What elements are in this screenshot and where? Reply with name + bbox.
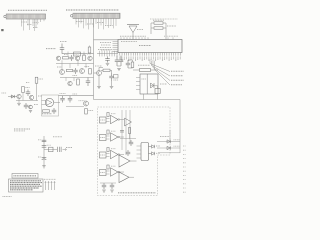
IC U2 body	[140, 74, 158, 94]
table header text	[14, 175, 37, 177]
signal label 4	[171, 84, 182, 86]
resistor R5 (box style)	[140, 69, 151, 72]
labels above bundle	[98, 49, 112, 51]
legend stroke 2	[48, 181, 50, 190]
gate G1 label	[111, 113, 116, 115]
IC U2 left pin b	[136, 81, 140, 83]
resistor R13	[22, 87, 25, 93]
input connector K4	[100, 170, 107, 176]
IC U1 left pin 4	[113, 47, 119, 49]
bundle tap wire 5	[109, 51, 111, 57]
margin tick 6	[183, 166, 186, 168]
IC U1 bottom pin 10	[139, 53, 141, 56]
connector J1 pin wire 7	[35, 19, 37, 28]
connector J1 bar	[6, 14, 45, 19]
connector J1 pin wire 5	[32, 19, 34, 26]
section label text line2	[14, 130, 25, 132]
resistor R20 at gate input	[107, 113, 109, 117]
label above R1	[153, 19, 164, 21]
table row 5	[10, 187, 39, 189]
bundle tap wire 7	[114, 51, 116, 57]
bundle tap wire 8	[116, 51, 118, 57]
ground under C2/C3	[117, 69, 121, 71]
capacitor C15	[42, 145, 47, 147]
IC U1 bottom pin 5	[128, 53, 130, 56]
margin tick 11	[183, 187, 186, 189]
IC U1 bottom pin 13	[146, 53, 148, 56]
vertical bus wire left of right section	[93, 18, 95, 99]
label at arrow	[66, 147, 72, 149]
table header box	[12, 174, 38, 179]
connector J1 pin wire 8	[37, 19, 39, 25]
capacitor C14	[42, 139, 47, 141]
wire row3	[60, 77, 94, 79]
resistor R14 under opamp	[43, 110, 50, 112]
capacitor C19 bottom of box	[103, 183, 105, 185]
fan stub 4	[154, 61, 156, 70]
bundle tap wire 3	[104, 51, 106, 57]
labels above U1 right stubs	[164, 35, 178, 37]
connector J2 pin wire 13	[105, 18, 107, 24]
IC U1 left pin 5	[113, 49, 119, 51]
gate G4 output wire	[120, 171, 124, 173]
power wire vertical	[43, 136, 45, 166]
label above resistor R5	[138, 64, 150, 66]
wires K4 to gate	[106, 170, 110, 172]
label right of R13	[26, 87, 30, 89]
connector J2 pin wire 12	[103, 18, 105, 29]
IC U1 top pin 7	[138, 37, 140, 39]
comparator A2 output	[130, 160, 137, 162]
capacitor C22 left of U3	[127, 150, 129, 152]
transistor Q6	[80, 69, 85, 74]
label above R7	[64, 54, 68, 56]
gate G3 label	[111, 148, 116, 150]
IC U1 bottom pin 15	[150, 53, 152, 56]
comparator A2	[119, 155, 130, 167]
IC U2 left pin d	[136, 89, 140, 91]
IC U1 part number text	[139, 45, 151, 47]
IC U3 body	[141, 143, 149, 161]
resistor R9	[67, 69, 73, 71]
connector J1 pin wire 3	[27, 19, 29, 26]
IC U1 bottom pin 25	[173, 53, 175, 56]
connector J1 pin wire 4	[29, 19, 31, 30]
label right of C15	[47, 144, 51, 146]
margin tick 7	[183, 170, 186, 172]
label r10	[85, 66, 90, 68]
wire R3 right	[110, 69, 112, 71]
legend stroke 3	[51, 181, 53, 190]
capacitor C6	[61, 44, 63, 48]
gate G3	[111, 150, 119, 158]
IC U1 bottom pin 22	[166, 53, 168, 56]
IC U1 top pin 1	[120, 37, 122, 39]
wire right of R1/R2 down to IC	[163, 22, 166, 24]
input connector K2	[100, 135, 107, 141]
margin tick 10	[183, 183, 186, 185]
resistor R2 top right	[154, 27, 163, 29]
IC U1 bottom pin 20	[161, 53, 163, 56]
IC U1 bottom pin 8	[134, 53, 136, 56]
wire R12 down	[36, 83, 38, 100]
input wire horizontal	[8, 96, 17, 98]
pin labels under J1	[21, 21, 27, 23]
LED D4 arrow	[149, 145, 155, 148]
ground under Q8	[18, 99, 20, 103]
connector J2 pin wire 17	[115, 18, 117, 26]
drop wire f	[73, 78, 75, 82]
input text label	[46, 48, 56, 50]
drop wire d	[85, 64, 87, 69]
dashed enclosure box	[98, 107, 171, 196]
wire C5/R4 bottom	[128, 67, 133, 69]
wire lower horizontal	[16, 100, 38, 102]
bundle tap wire 6	[111, 51, 113, 57]
ground under power cluster	[42, 166, 46, 168]
IC U2 inner text	[142, 78, 147, 80]
comparator A3	[119, 172, 129, 183]
IC U1 bottom pin 2	[121, 53, 123, 56]
fan stub 3	[152, 60, 154, 68]
IC U1 bottom pin 9	[137, 53, 139, 56]
wire opamp output	[54, 102, 60, 104]
capacitor C2	[116, 56, 118, 60]
resistor R7	[63, 57, 69, 59]
label right of U2	[160, 83, 167, 85]
wire base Q1	[94, 72, 97, 74]
footnote text	[3, 196, 12, 198]
drop wire e	[65, 78, 67, 82]
transistor Q10	[84, 101, 89, 106]
IC U1 left pin 1	[113, 41, 119, 43]
IC U1 bottom pin 16	[152, 53, 154, 56]
pin labels under J2	[76, 21, 84, 23]
IC U1 left pin 3	[113, 45, 119, 47]
IC U1 bottom pin 14	[148, 53, 150, 56]
signal wire 4 diagonal	[155, 70, 171, 86]
IC U1 bottom pin 26	[175, 53, 177, 56]
IC U1 bottom pin 3	[123, 53, 125, 56]
wire below Y1	[157, 94, 159, 100]
gate G3 bubble	[118, 154, 120, 156]
wires K2 to gate	[106, 135, 110, 137]
bundle tap wire 4	[106, 51, 108, 57]
resistor R21 at gate input	[107, 130, 109, 134]
IC U1 bottom pin 11	[141, 53, 143, 56]
transistor Q9	[29, 95, 33, 99]
IC U1 bottom pin 17	[155, 53, 157, 56]
connector J1 left mounting eye	[4, 15, 6, 17]
wire antenna to IC top	[132, 33, 134, 40]
small mark	[26, 82, 30, 84]
bundle tap wire 1	[99, 51, 101, 57]
IC U2 bottom pin	[143, 94, 145, 100]
faint note top right	[150, 18, 178, 20]
label right of R2	[167, 25, 176, 27]
label above cluster	[53, 136, 62, 138]
capacitor C4	[111, 73, 113, 76]
connector J1 pin wire 9	[40, 19, 42, 22]
wire bottom row	[59, 95, 94, 97]
comparator A3 output	[129, 176, 134, 178]
wire mid	[66, 106, 84, 108]
connector J1 pin wire 10	[43, 19, 45, 21]
label left of C17	[38, 156, 42, 158]
resistor R22 at gate input	[107, 148, 109, 152]
signal wire 1 diagonal	[150, 64, 170, 72]
IC U1 top pin 8	[141, 37, 143, 39]
connector K2 label	[100, 137, 105, 139]
ground under C20	[110, 190, 114, 192]
gate G4 bubble	[118, 171, 120, 173]
connector J2 pin wire 14	[108, 18, 110, 28]
input label	[2, 92, 7, 94]
margin tick 2	[183, 149, 186, 151]
IC U1 top pin 3	[126, 37, 128, 39]
margin tick 8	[183, 174, 186, 176]
wires K3 to gate	[106, 153, 110, 155]
IC U3 left pin 2	[137, 149, 142, 151]
IC U1 top pin 5	[132, 37, 134, 39]
capacitor C18 on wire A	[120, 130, 124, 132]
margin tick 1	[183, 145, 186, 147]
bundle tap wire 2	[101, 51, 103, 57]
horizontal wire below rows	[158, 152, 180, 154]
IC U1 top pin 6	[135, 37, 137, 39]
connector J1 pin wire 6	[34, 19, 36, 31]
label c8	[73, 75, 78, 77]
connector J2 pin wire 4	[83, 18, 85, 28]
capacitor C5	[127, 60, 129, 63]
resistor R23 at gate input	[107, 165, 109, 169]
gate G1 bubble	[118, 119, 120, 121]
signal label 1	[171, 70, 184, 72]
label near Q9	[38, 95, 42, 97]
margin tick 5	[183, 162, 186, 164]
IC U1 body	[118, 40, 182, 53]
label under R14	[42, 113, 52, 115]
capacitor C10	[27, 90, 29, 92]
IC U2 left pin a	[136, 77, 140, 79]
labels row under U1 pins (vertical micro text)	[119, 57, 121, 60]
label above Q3	[75, 53, 79, 55]
wire under R16	[129, 134, 131, 139]
diode D6 on row 1	[167, 140, 170, 143]
wire left of R5	[133, 69, 140, 71]
signal wire 3 diagonal	[153, 68, 170, 81]
connector J2 left mounting eye	[71, 15, 73, 17]
transistor Q7	[68, 81, 72, 85]
connector J2 bar	[73, 13, 120, 18]
table row 1	[10, 180, 41, 182]
IC U1 top pin 2	[123, 37, 125, 39]
IC U1 left pin 6	[113, 51, 119, 53]
wire bundle horizontal left of U1	[97, 53, 118, 55]
label row2	[174, 145, 180, 147]
ground under C1	[106, 63, 110, 65]
IC U1 bottom pin 18	[157, 53, 159, 56]
label top right in box	[160, 136, 169, 138]
connector J1 pin wire 2	[23, 19, 25, 31]
wire C2/C3 join	[117, 65, 121, 67]
signal wire 2 diagonal	[152, 66, 171, 77]
capacitor C13	[69, 96, 71, 99]
long bus wire to relay section	[94, 99, 181, 101]
connector J2 pin wire 5	[85, 18, 87, 25]
junction tick 2	[83, 52, 85, 57]
diode D2 on input	[11, 95, 14, 98]
resistor R16 above U3	[128, 128, 130, 134]
transistor Q2	[56, 56, 60, 60]
diode D1 inside U2	[151, 83, 155, 88]
margin tick 12	[183, 191, 186, 193]
IC U1 bottom pin 23	[168, 53, 170, 56]
crystal Y1	[155, 89, 160, 94]
gate G2	[111, 133, 119, 141]
connector J2 pin wire 11	[100, 18, 102, 25]
resistor R12	[35, 77, 38, 83]
connector J2 pin wire 7	[90, 18, 92, 24]
table row 3	[10, 183, 40, 185]
connector J2 pin wire 9	[95, 18, 97, 24]
IC U1 top pin 9	[144, 37, 146, 39]
resistor R3	[103, 69, 110, 71]
dashed box around op-amp stage	[42, 95, 59, 116]
wire R6 top	[89, 46, 91, 48]
IC U1 bottom pin 27	[177, 53, 179, 56]
IC U1 bottom pin 28	[179, 53, 181, 56]
transistor Q8	[17, 94, 21, 98]
junction tick 1	[67, 52, 69, 57]
IC U1 bottom pin 19	[159, 53, 161, 56]
capacitor C8	[75, 68, 77, 70]
wire row1	[62, 53, 94, 55]
table row 6	[10, 189, 33, 191]
resistor R8	[83, 55, 86, 61]
margin tick 4	[183, 158, 186, 160]
drop wire a	[61, 60, 63, 70]
wire R13 down	[22, 93, 24, 101]
right vertical supply wire	[179, 100, 181, 154]
transistor Q4	[88, 56, 92, 60]
connector J1 pin wire 1	[21, 19, 23, 27]
fan stub 1	[149, 60, 151, 64]
wire C5/R4 top	[128, 59, 133, 61]
resistor R6	[88, 47, 91, 53]
connector K1 label	[100, 119, 105, 121]
IC U1 top inner text	[121, 41, 137, 43]
label under X2	[114, 79, 119, 81]
horizontal wire at 138.7	[120, 138, 136, 140]
title text above connector J1	[8, 9, 47, 11]
legend stroke 4	[54, 181, 56, 190]
label c13	[73, 93, 78, 95]
output row 1 wire	[157, 141, 180, 143]
box caption text	[118, 192, 156, 194]
input connector K1	[100, 117, 107, 123]
ground under Q1	[98, 75, 100, 86]
ground below Q11	[29, 111, 32, 113]
resistor R10	[89, 69, 92, 75]
op-amp A1 triangle	[46, 100, 52, 106]
connector K3 label	[100, 154, 105, 156]
legend text above strokes	[44, 178, 56, 180]
antenna E1 horizontal plate	[127, 24, 139, 26]
label near Q10	[79, 100, 85, 102]
output row 2 wire	[157, 147, 180, 149]
wires K1 to gate	[106, 118, 110, 120]
connector J2 pin wire 10	[98, 18, 100, 29]
diode D3	[49, 147, 54, 152]
capacitor C9	[87, 78, 89, 81]
input connector K3	[100, 152, 107, 158]
wire row2 horizontal	[56, 63, 94, 65]
transistor Q3	[75, 56, 79, 60]
fan stub 2	[151, 61, 153, 66]
margin tick 9	[183, 179, 186, 181]
antenna E1 triangle	[129, 26, 137, 33]
resistor R1 top right	[154, 22, 163, 24]
capacitor C21 left of U3	[130, 140, 132, 142]
diode D7 on row 2	[167, 146, 170, 149]
legend stroke 1	[45, 181, 47, 190]
capacitor C11 in box	[53, 108, 55, 110]
drop wire b	[69, 64, 71, 69]
table row 4	[10, 185, 42, 187]
IC U2 left pin c	[136, 85, 140, 87]
title text above connector J2	[66, 9, 119, 11]
gate G3 output wire	[120, 154, 124, 156]
label right of D4	[156, 145, 160, 147]
label near R15	[89, 110, 94, 112]
component box X1	[74, 52, 81, 56]
gate G2 label	[111, 130, 116, 132]
IC U1 bottom pin 4	[126, 53, 128, 56]
capacitor C20 bottom of box	[111, 183, 113, 185]
capacitor C1 under bundle	[107, 56, 109, 58]
IC U1 bottom pin 12	[143, 53, 145, 56]
label near Q1	[95, 65, 102, 67]
resistor R4 small	[131, 62, 134, 68]
capacitor C10b	[25, 103, 27, 105]
LED D5 arrow	[149, 152, 155, 155]
IC U3 left pin 1	[137, 145, 142, 147]
IC U3 left pin 4	[137, 157, 142, 159]
table row 2	[10, 182, 42, 184]
bus wire into IC U1	[94, 39, 119, 41]
IC U1 left pin 2	[113, 43, 119, 45]
connector J2 pin wire 2	[78, 18, 80, 27]
capacitor C12	[62, 96, 64, 99]
connector J2 pin wire 3	[80, 18, 82, 23]
vertical wire B in box	[125, 110, 127, 155]
signal label 2	[171, 75, 183, 77]
IC U1 bottom pin 6	[130, 53, 132, 56]
capacitor C3	[120, 56, 122, 60]
IC U1 bottom pin 7	[132, 53, 134, 56]
signal label 3	[171, 79, 184, 81]
capacitor C7 plates	[71, 55, 73, 57]
label q5	[57, 66, 62, 68]
label left of C14	[38, 139, 42, 141]
wire opamp inputs	[42, 100, 47, 102]
branch wire	[44, 149, 57, 151]
resistor R15	[85, 109, 88, 115]
labels above U1 top pins	[120, 35, 146, 37]
IC U1 top right stub 2	[172, 37, 174, 39]
IC U1 top pin 4	[129, 37, 131, 39]
